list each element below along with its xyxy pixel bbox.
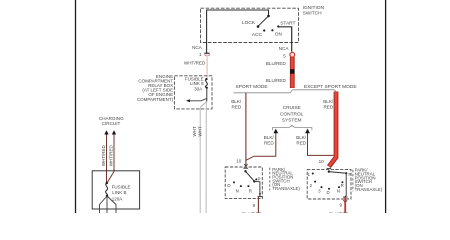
label NCA (pin 5) [279,46,290,51]
label BLK/RED (except wire) [323,99,334,110]
label WHT/RED (left, rotated) [101,144,106,166]
label BLK/RED (left cruise branch) [264,135,275,146]
svg-text:1: 1 [199,52,202,57]
svg-text:N: N [337,188,340,193]
label D (right box) [327,190,330,195]
arrow to cruise control (right) [305,129,310,134]
label WHT/RED (right, rotated) [109,144,114,166]
label WHT (left wire, rotated) [192,126,197,136]
bracket (left switch label) [269,168,271,191]
svg-text:ACC: ACC [252,32,263,38]
svg-text:L: L [308,172,311,177]
label 9 (right) [339,203,342,208]
node R contact (left box) [247,185,249,187]
svg-text:D: D [327,190,330,195]
svg-text:EXCEPT SPORT MODE: EXCEPT SPORT MODE [304,84,357,90]
fusible link B box [92,171,139,209]
arrow to charging circuit (right) [112,130,116,134]
label 2 (right box) [310,183,313,188]
node L contact (right box) [312,173,314,175]
fusible link B (fuse FB) [106,182,109,197]
wire fan-out right below fuse [107,196,116,213]
svg-text:BLK/: BLK/ [264,135,275,140]
node 2 contact (right box) [314,181,316,183]
label START [280,20,295,26]
wire BLK/RED except branch (thick red down-right) [329,92,336,167]
label D (left box) [227,183,230,188]
svg-text:10: 10 [319,159,325,164]
brace under cruise control [273,126,312,131]
label FUSIBLE LINK B 120A [112,184,131,201]
label BLU/RED (below connector) [266,78,287,83]
svg-text:IGNITION: IGNITION [303,5,325,11]
label R (left box) [249,188,252,193]
svg-text:BLK/: BLK/ [323,99,334,104]
wire except-sport underline [292,90,336,92]
pin 5 label [283,53,286,58]
svg-text:TRANSAXLE): TRANSAXLE) [272,186,300,191]
engine compartment relay box [174,76,212,109]
label ACC [252,32,263,38]
wire WHT/RED charging (left) [106,135,108,184]
wire P to pin 9 (left box) [254,181,261,196]
svg-text:BLU/RED: BLU/RED [329,211,350,213]
label IGNITION SWITCH [303,5,325,16]
svg-text:P: P [348,172,351,177]
label BLU (clipped at bottom, left) [242,211,263,216]
svg-text:COMPARTMENT): COMPARTMENT) [137,97,174,102]
svg-text:BLK/: BLK/ [296,135,307,140]
label P (left box) [258,177,261,182]
svg-text:9: 9 [253,203,256,208]
switch lever (right P/N switch, at P) [329,172,345,174]
pin 10 (left switch, connector V and T-bar) [243,164,248,168]
label PARK/NEUTRAL POSITION SWITCH (left) [272,167,300,191]
wire START output to pin 5 [278,27,291,52]
connector C5 (red ring) [290,52,295,57]
label BLK/RED (right cruise branch) [296,135,307,146]
label 10 (left switch pin) [236,159,242,164]
pin 9 (right switch, T-bar and connector V) [343,197,348,203]
svg-text:N: N [236,188,239,193]
connector C1 (pin 1 bullet) [204,53,209,56]
label LOCK [242,20,256,26]
node left switch pivot [244,170,246,172]
node D contact (left box) [233,181,235,183]
wire branch arrow (to other circuits) [186,98,207,102]
wire from fuse to junction [206,88,208,102]
svg-text:3: 3 [318,188,321,193]
arrow to charging circuit (left) [104,130,108,134]
svg-text:RED: RED [323,104,333,109]
svg-text:WHT: WHT [198,126,203,136]
svg-text:R: R [341,183,344,188]
label 10 (right switch pin) [319,159,325,164]
node 3 contact (right box) [321,186,323,188]
svg-text:CIRCUIT: CIRCUIT [102,121,121,126]
svg-text:SYSTEM: SYSTEM [282,117,302,123]
wire ignition feed (pin1 to LOCK pivot) [207,10,269,54]
wire branch to cruise control (left) [246,133,276,161]
svg-text:NCA: NCA [279,46,290,51]
svg-text:LINK 8: LINK 8 [190,81,204,86]
wire WHT right (straight down) [205,102,207,214]
svg-text:2: 2 [310,183,313,188]
label EXCEPT SPORT MODE [304,84,357,90]
wire WHT left (junction diagonal down) [200,102,206,214]
label WHT (right wire, rotated) [198,126,203,136]
wire right page border [385,0,387,213]
label 9 (left) [253,203,256,208]
park/neutral position switch box (right) [307,170,351,199]
wire sport-mode underline [234,90,293,93]
label FUSIBLE LINK 8 30A [185,77,204,92]
label 3 (right box) [318,188,321,193]
svg-text:10: 10 [236,159,242,164]
wire P to pin 9 (right box) [345,173,346,197]
wire WHT/RED charging (right) [107,135,114,184]
label SPORT MODE [236,84,268,90]
label L (right box) [308,172,311,177]
node right switch pivot [328,170,330,172]
svg-text:9: 9 [339,203,342,208]
node R contact (right box) [341,181,343,183]
svg-text:TRANSAXLE): TRANSAXLE) [355,187,383,192]
svg-text:START: START [280,20,295,26]
label P (right box) [348,172,351,177]
svg-text:P: P [258,177,261,182]
svg-text:D: D [227,183,230,188]
svg-text:SPORT MODE: SPORT MODE [236,84,268,90]
svg-text:WHT/RED: WHT/RED [109,144,114,166]
switch lever (left P/N switch) [246,171,256,182]
node N contact (right box) [338,186,340,188]
svg-text:RED: RED [231,104,241,109]
node P contact (right box) [345,172,347,174]
wire BLK/RED sport branch (down-left) [245,93,247,166]
node ON contact [271,29,273,31]
bracket (right switch label) [352,170,354,192]
wire BLU/RED hot feed (thick red, ignition to split) [290,57,295,88]
svg-text:BLU/RED: BLU/RED [266,78,287,83]
label BLU/RED (above connector) [266,61,287,66]
svg-text:R: R [249,188,252,193]
svg-text:CRUISE: CRUISE [283,105,301,111]
node START contact [277,25,279,27]
svg-text:BLK/: BLK/ [231,99,242,104]
label N (left box) [236,188,239,193]
label N (right box) [337,188,340,193]
connector C6 (inline black) [290,69,295,74]
svg-text:BLU/RED: BLU/RED [242,211,263,213]
arrow to cruise control (left) [273,129,278,134]
label ENGINE COMPARTMENT RELAY BOX [137,74,174,102]
pin 10 (right switch, T-bar) [327,167,332,169]
svg-text:WHT/RED: WHT/RED [101,144,106,166]
wire fan-out middle below fuse [106,196,108,213]
park/neutral position switch box (left) [225,167,262,199]
svg-text:30A: 30A [194,87,202,92]
svg-text:RED: RED [264,141,274,146]
svg-text:WHT: WHT [192,126,197,136]
svg-text:5: 5 [283,53,286,58]
label R (right box) [341,183,344,188]
label BLK/RED (sport wire) [231,99,242,110]
node D contact (right box) [328,188,330,190]
svg-text:LOCK: LOCK [242,20,256,26]
pin 1 label [199,52,202,57]
label ON [275,32,283,38]
svg-text:SWITCH: SWITCH [303,10,322,16]
node N contact (left box) [240,185,242,187]
svg-text:BLU/RED: BLU/RED [266,61,287,66]
switch lever (ignition, at LOCK) [257,16,269,28]
svg-text:NCA: NCA [192,45,203,50]
svg-text:CONTROL: CONTROL [280,111,304,117]
wire BLU below left switch [257,197,259,213]
wire BLU below right switch (red highlighted) [344,197,346,213]
wire left page border [75,0,77,213]
pin 9 (left switch, T-bar) [258,196,263,198]
svg-text:ON: ON [275,32,283,38]
svg-text:RED: RED [296,141,306,146]
wire fan-out left below fuse [100,196,108,213]
label PARK/NEUTRAL POSITION SWITCH (right) [355,168,383,192]
wire WHT/RED (pin1 down to fusible link 8) [206,57,208,80]
label WHT/RED [184,61,206,66]
fusible link 8 (fuse F8) [205,78,208,89]
ignition switch box S1 [201,8,299,42]
node ACC contact [263,29,265,31]
label CHARGING CIRCUIT [99,116,124,126]
svg-text:WHT/RED: WHT/RED [184,61,206,66]
wire branch to cruise control (right) [308,133,334,156]
svg-text:FUSIBLE: FUSIBLE [112,184,131,189]
svg-text:120A: 120A [112,196,123,201]
label BLU (clipped at bottom, right) [329,211,350,216]
node LOCK pivot [267,15,270,18]
label CRUISE CONTROL SYSTEM [280,105,304,124]
node P contact (left box) [255,178,257,180]
label NCA (pin 1) [192,45,203,50]
svg-text:LINK B: LINK B [112,190,126,195]
